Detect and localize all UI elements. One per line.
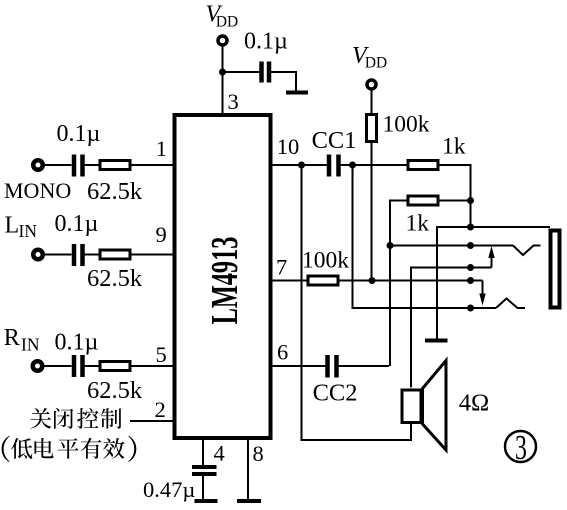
svg-text:1k: 1k: [442, 134, 466, 160]
junction dot 1k junction: [467, 197, 474, 204]
ground pin8: [237, 499, 261, 503]
junction dot jack ring terminal: [467, 305, 474, 312]
wire shutdown control to pin2: [130, 420, 173, 422]
svg-text:LM4913: LM4913: [204, 237, 246, 325]
speaker cone: [423, 361, 447, 451]
svg-text:CC1: CC1: [312, 127, 357, 154]
arrowhead up tip-switch: [488, 246, 494, 258]
junction dot pin10 speaker branch: [298, 162, 305, 169]
wire VDD2 terminal to 100k vertical resistor: [371, 90, 373, 114]
wire CC2 right to vertical up: [339, 365, 390, 367]
jack body: [551, 231, 560, 308]
svg-text:100k: 100k: [383, 112, 430, 138]
svg-text:100k: 100k: [302, 248, 349, 274]
jack tip contact spring: [513, 246, 541, 256]
arrow up shaft: [491, 256, 493, 268]
capacitor 0.47u plates: [192, 465, 217, 469]
junction dot jack tip-switch terminal: [467, 264, 474, 271]
wire pin8 to ground: [247, 440, 249, 500]
terminal RIN: [33, 361, 43, 371]
wire sleeve line to jack body: [437, 227, 550, 339]
wire pin4 to bypass cap 0.47u: [202, 440, 204, 466]
svg-text:0.1µ: 0.1µ: [55, 330, 99, 356]
wire cap to resistor RIN: [85, 365, 99, 367]
wire pin3 vertical from VDD terminal to IC top: [222, 46, 224, 113]
svg-text:62.5k: 62.5k: [87, 178, 143, 205]
svg-text:MONO: MONO: [4, 178, 71, 203]
junction dot CC1 output: [349, 162, 356, 169]
svg-text:0.1µ: 0.1µ: [55, 211, 99, 237]
svg-text:DD: DD: [365, 55, 387, 72]
svg-text:4: 4: [214, 441, 225, 466]
resistor 1k lower: [408, 196, 438, 205]
junction dot VDD1 bypass: [219, 69, 226, 76]
svg-text:DD: DD: [216, 14, 238, 31]
svg-text:1k: 1k: [406, 211, 430, 237]
wire CC1 to 1k resistor: [341, 164, 407, 166]
wire cap to resistor LIN: [85, 254, 99, 256]
svg-text:IN: IN: [21, 335, 40, 355]
ground jack sleeve: [425, 339, 448, 343]
wire LIN input row pin9: [45, 254, 72, 256]
wire 100k vertical down to pin7 node: [371, 143, 373, 281]
svg-text:0.1µ: 0.1µ: [57, 121, 101, 147]
svg-text:5: 5: [156, 342, 167, 367]
wire pin10 node down to speaker minus: [302, 165, 412, 440]
svg-text:3: 3: [228, 89, 239, 114]
svg-text:9: 9: [156, 222, 167, 247]
svg-text:1: 1: [156, 136, 167, 161]
wire cap 0.47u to ground: [202, 476, 204, 501]
wire 1k lower left lead down to CC2 node: [390, 201, 407, 367]
resistor 1k upper: [408, 161, 438, 170]
capacitor CC1 plates: [327, 155, 332, 177]
wire MONO input row pin1: [45, 164, 72, 166]
svg-text:IN: IN: [19, 221, 38, 241]
capacitor CC2 plates: [325, 355, 330, 378]
capacitor 0.1u LIN plates: [72, 244, 77, 266]
svg-text:7: 7: [276, 255, 287, 280]
resistor 100k vertical: [367, 115, 377, 142]
text shutdown-control label: [30, 408, 121, 429]
resistor 62.5k LIN: [100, 250, 130, 259]
jack ring contact spring: [496, 299, 525, 309]
wire bypass cap branch: dot to plate: [223, 71, 260, 73]
capacitor 0.1u RIN plates: [72, 355, 77, 377]
junction dot jack tip terminal: [467, 242, 474, 249]
speaker box: [402, 390, 421, 423]
svg-text:10: 10: [277, 134, 300, 159]
wire 100k to ring line and jack ring-switch: [340, 280, 483, 282]
terminal MONO: [33, 160, 43, 170]
wire bypass cap to ground: [271, 72, 296, 92]
svg-text:0.47µ: 0.47µ: [143, 477, 195, 502]
wire cap to resistor MONO: [85, 164, 99, 166]
resistor 100k horizontal: [308, 276, 338, 285]
junction dot 100k pin7 node: [369, 277, 376, 284]
junction dot CC2 tip node: [387, 242, 394, 249]
capacitor 0.1u MONO plates: [72, 155, 77, 177]
svg-text:2: 2: [155, 397, 166, 422]
wire 1k upper to right corner down: [440, 165, 471, 227]
svg-text:6: 6: [277, 340, 288, 365]
ground bypass cap: [286, 91, 308, 95]
wire resistor to pin9: [132, 254, 173, 256]
wire tip line from CC2 node to jack tip contact: [390, 245, 513, 247]
svg-text:R: R: [4, 325, 20, 351]
terminal LIN: [33, 250, 43, 260]
wire pin7 row: [273, 280, 307, 282]
arrow down shaft: [482, 281, 484, 295]
text active-low label: [2, 436, 137, 462]
wire resistor to pin5: [132, 365, 173, 367]
terminal VDD2: [367, 80, 376, 89]
wire pin6 row: [273, 365, 326, 367]
wire lower contact to spring: [471, 307, 497, 309]
wire resistor to pin1: [132, 164, 173, 166]
wire RIN input row pin5: [45, 365, 72, 367]
svg-text:0.1µ: 0.1µ: [244, 29, 288, 55]
capacitor 0.1u bypass plates: [259, 62, 264, 83]
arrowhead down ring-switch: [479, 294, 485, 306]
junction dot jack ring-switch terminal: [467, 277, 474, 284]
circled-3 figure number: [505, 431, 536, 462]
wire speaker plus line to jack tip-switch: [411, 268, 492, 388]
wire 1k lower right lead: [440, 200, 471, 202]
ground pin4: [195, 499, 218, 503]
svg-text:8: 8: [253, 441, 264, 466]
wire CC1 node down to jack lower contact line: [353, 165, 471, 308]
terminal VDD1: [218, 36, 227, 45]
resistor 62.5k RIN: [100, 362, 130, 371]
wire pin10 output row: [273, 164, 328, 166]
IC U1 LM4913 body: [175, 115, 271, 438]
svg-text:CC2: CC2: [313, 380, 358, 407]
svg-text:62.5k: 62.5k: [87, 265, 143, 292]
svg-text:L: L: [5, 213, 20, 239]
junction dot jack sleeve terminal: [467, 224, 474, 231]
svg-text:4Ω: 4Ω: [459, 390, 489, 417]
resistor 62.5k MONO: [100, 161, 130, 170]
svg-text:3: 3: [515, 429, 527, 468]
svg-text:62.5k: 62.5k: [87, 377, 143, 404]
